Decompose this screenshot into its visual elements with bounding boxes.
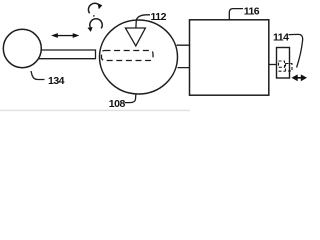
- svg-text:116: 116: [244, 5, 260, 17]
- svg-text:108: 108: [109, 98, 126, 110]
- drum 108: [100, 20, 178, 94]
- leader 108: [125, 94, 136, 103]
- leader 114: [289, 34, 303, 67]
- svg-text:114: 114: [273, 32, 289, 44]
- leader 116: [229, 9, 243, 20]
- rod (shaft of 134): [38, 49, 95, 59]
- scan speck: [93, 15, 95, 17]
- arrow (left-right) above rod: [51, 33, 79, 38]
- leader 112: [136, 15, 150, 28]
- connector drum to box: [177, 45, 190, 67]
- dashed inner rect: [102, 51, 154, 61]
- svg-text:112: 112: [151, 11, 167, 23]
- connector box to 114: [269, 64, 277, 66]
- faint scan streak: [0, 110, 190, 112]
- leader 134: [31, 71, 45, 80]
- double arrow (right): [292, 74, 308, 81]
- dashed element at wall of 114: [286, 64, 293, 72]
- svg-text:134: 134: [48, 75, 65, 87]
- component 114: [277, 48, 290, 79]
- dashed segment: [279, 70, 286, 72]
- rotation arrow (top): [88, 3, 100, 13]
- box 116: [190, 20, 269, 95]
- dashed element inside 114: [279, 61, 285, 67]
- ball 134: [3, 29, 41, 67]
- rotation arrow (bottom): [90, 19, 102, 29]
- funnel 112: [125, 28, 145, 46]
